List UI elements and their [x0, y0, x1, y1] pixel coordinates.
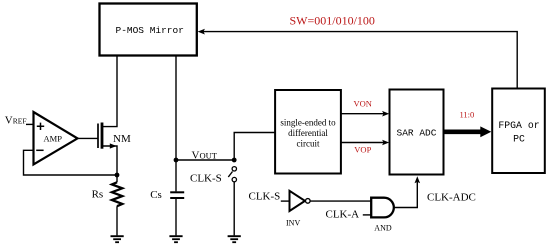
svg-text:single-ended to: single-ended to [280, 118, 336, 128]
svg-text:SW=001/010/100: SW=001/010/100 [290, 13, 375, 27]
svg-text:Cs: Cs [150, 189, 162, 201]
svg-text:FPGA or: FPGA or [498, 120, 539, 131]
svg-text:SAR ADC: SAR ADC [397, 127, 437, 138]
svg-text:CLK-S: CLK-S [190, 172, 222, 184]
svg-text:AMP: AMP [44, 133, 63, 143]
svg-text:P-MOS Mirror: P-MOS Mirror [116, 25, 184, 36]
svg-text:NM: NM [113, 133, 131, 145]
svg-text:CLK-A: CLK-A [326, 209, 360, 221]
svg-text:VON: VON [354, 99, 372, 109]
svg-text:AND: AND [374, 223, 392, 232]
svg-text:INV: INV [286, 219, 300, 228]
svg-text:circuit: circuit [297, 138, 320, 148]
svg-text:differential: differential [288, 128, 328, 138]
svg-text:CLK-S: CLK-S [249, 191, 281, 203]
svg-text:11:0: 11:0 [460, 109, 475, 119]
svg-text:Rs: Rs [92, 189, 104, 201]
svg-text:VOP: VOP [354, 145, 371, 155]
svg-text:VOUT: VOUT [192, 149, 218, 161]
svg-text:CLK-ADC: CLK-ADC [427, 191, 476, 203]
svg-text:VREF: VREF [5, 115, 27, 127]
svg-text:PC: PC [513, 133, 525, 144]
